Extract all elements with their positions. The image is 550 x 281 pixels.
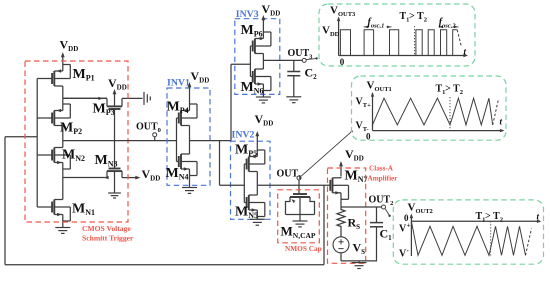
svg-text:OUT0: OUT0 [136, 122, 161, 135]
waveform VOUT1 triangle [373, 98, 493, 125]
wire tap to INV3 [231, 64, 250, 140]
svg-text:CMOS Voltage: CMOS Voltage [82, 224, 131, 233]
transistor MP6 [241, 23, 271, 60]
source VS [333, 237, 365, 256]
label T1>T2 VOUT3 [400, 11, 427, 24]
node OUT2 terminal [369, 195, 394, 210]
label INV2 [232, 130, 255, 141]
measure fosc2 [439, 17, 459, 30]
node mid-N wire to MN3 [63, 177, 107, 179]
wire schmitt input horizontal [5, 136, 37, 138]
power VDD INV2 [255, 112, 274, 157]
box VOUT1 plot (green dashed) [352, 76, 507, 140]
box VOUT3 plot (green dashed) [319, 4, 475, 66]
wire INV1 gate line [176, 118, 178, 162]
label NMOS Cap [285, 244, 322, 253]
ground MP3 drain (sideways) [144, 92, 150, 105]
wire bottom rail amp [341, 260, 377, 262]
label T1>T2 VOUT2 [476, 211, 503, 224]
wire INV2 gate line [243, 164, 245, 203]
axis VOUT2 [404, 212, 542, 257]
divider VOUT1 dotted [449, 97, 451, 131]
svg-text:+: + [407, 222, 411, 230]
power VDD INV1 [188, 69, 210, 111]
transistor MN7 [330, 169, 367, 208]
leader OUT2 to plot [385, 209, 391, 217]
waveform VOUT3 square wave [339, 30, 458, 56]
leader OUT3 to plot [306, 57, 318, 59]
wire INV3 gate line [249, 46, 251, 77]
svg-text:0: 0 [340, 57, 345, 67]
svg-text:Amplifier: Amplifier [368, 175, 399, 183]
label Class-A Amplifier [368, 165, 399, 183]
node OUT0 terminal [136, 122, 161, 141]
svg-text:Class-A: Class-A [369, 165, 394, 173]
power VDD MP3 bulk [108, 76, 127, 106]
capacitor C2 [287, 60, 317, 96]
wire feedback bottom [5, 264, 324, 266]
transistor MN1 [37, 178, 95, 228]
waveform VOUT1 dashed end [493, 100, 499, 125]
svg-text:OUT1: OUT1 [277, 169, 302, 182]
transistor MP5 [235, 143, 265, 186]
wire feedback vertical right [323, 185, 325, 264]
axis VOUT1 [366, 92, 505, 142]
leader OUT1 to plot [301, 130, 353, 176]
wire schmitt output OUT0 [63, 140, 177, 142]
waveform VOUT2 triangle [411, 221, 525, 255]
svg-text:0: 0 [366, 132, 371, 142]
box INV2 (blue dashed) [231, 141, 271, 219]
axis VOUT3 [337, 17, 468, 67]
capacitor C1 [370, 207, 392, 261]
label VOUT3 [330, 5, 356, 19]
label T1>T2 VOUT1 [436, 84, 463, 97]
transistor MP2 [37, 98, 82, 140]
ground INV2 [250, 219, 265, 225]
wire VS to rail [340, 253, 342, 261]
transistor MNCAP [281, 185, 316, 240]
transistor MN4 [166, 141, 198, 188]
label VOUT2 [408, 202, 433, 216]
svg-text:INV1: INV1 [167, 78, 190, 89]
box CMOS Schmitt trigger (red dashed) [25, 61, 128, 222]
wire OUT2 [341, 206, 382, 208]
svg-text:OUT2: OUT2 [369, 195, 394, 208]
svg-text:Schmitt Trigger: Schmitt Trigger [82, 234, 134, 243]
resistor RS [337, 207, 360, 231]
divider VOUT2 dotted [490, 221, 492, 256]
power VDD schmitt [60, 38, 79, 72]
transistor MN5 [235, 185, 265, 220]
wire tap to INV2 [219, 141, 221, 186]
svg-text:NMOS Cap: NMOS Cap [285, 244, 322, 253]
node OUT1 terminal [277, 169, 302, 186]
transistor MN3 [95, 141, 137, 180]
label INV1 [167, 78, 190, 89]
ground MN3 bulk [108, 171, 121, 198]
box NMOS cap (red dashed) [278, 190, 320, 243]
waveform VOUT3 dashed end [457, 30, 461, 47]
transistor MN6 [241, 60, 271, 97]
node mid-P wire to MP3 [63, 97, 107, 99]
ground INV1 [182, 188, 197, 194]
ground amp rail [352, 261, 367, 269]
ground INV3 [256, 97, 271, 103]
transistor MN2 [37, 141, 85, 178]
node OUT3 terminal [288, 48, 314, 62]
wire OUT1 [257, 184, 330, 186]
measure fosc1 [364, 17, 392, 30]
box Class-A amplifier (red dashed) [328, 168, 366, 263]
waveform VOUT2 dashed end [526, 229, 532, 256]
label VOUT1 [367, 80, 392, 94]
wire INV1 output [190, 140, 232, 142]
divider VOUT3 dotted [414, 26, 416, 56]
label VT- [356, 121, 369, 134]
transistor MP3 [63, 97, 143, 141]
transistor MP4 [167, 100, 198, 141]
ground MN1 source [55, 228, 70, 234]
label CMOS Voltage [82, 224, 134, 243]
label INV3 [236, 9, 259, 20]
box INV1 (blue dashed) [167, 88, 210, 185]
wire schmitt input vertical [4, 137, 6, 265]
power VDD MN7 [339, 147, 364, 177]
label V+ [399, 222, 411, 235]
transistor MP1 [37, 65, 94, 99]
svg-text:INV3: INV3 [236, 9, 259, 20]
power VDD INV3 [262, 2, 281, 39]
label VDD VOUT3 [322, 25, 340, 39]
label V- [399, 246, 410, 259]
wire schmitt common gate line [36, 79, 38, 208]
box VOUT2 plot (green dashed) [393, 200, 543, 264]
wire INV2 input [220, 184, 245, 186]
wire RS to VS [340, 229, 342, 237]
svg-text:INV2: INV2 [232, 130, 255, 141]
power VDD MN3 drain (right arrow) [135, 167, 160, 183]
wire INV3 output OUT3 [263, 59, 302, 61]
ground C2 [286, 97, 301, 103]
ground MNCAP [293, 221, 308, 227]
box INV3 (blue dashed) [235, 19, 280, 95]
label VT+ [356, 97, 372, 110]
